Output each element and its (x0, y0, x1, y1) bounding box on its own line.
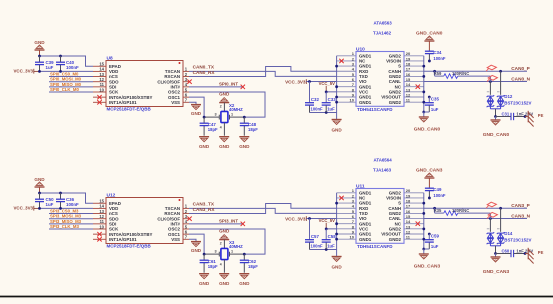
svg-text:PE: PE (538, 113, 544, 118)
svg-text:GND: GND (34, 40, 45, 45)
svg-text:10: 10 (99, 87, 104, 92)
svg-text:1uF: 1uF (46, 202, 54, 207)
ground GND_CAN3 (under TVS) (483, 254, 510, 275)
svg-text:U8: U8 (107, 55, 113, 61)
svg-text:C33: C33 (328, 97, 337, 102)
IC U11 TDH541SCANFD isolated CAN transceiver (337, 183, 424, 249)
ground GND (transceiver) (331, 120, 342, 133)
svg-text:VCC_5V: VCC_5V (319, 81, 335, 86)
svg-text:INT1A/GP101: INT1A/GP101 (109, 237, 137, 242)
capacitor C36 100nF (56, 193, 79, 208)
svg-text:VCC_3V3: VCC_3V3 (13, 206, 33, 211)
capacitor C48 18pF (240, 117, 258, 136)
no-connect X transceiver pin 14 (416, 222, 420, 226)
capacitor C31 1nF 2KV (496, 111, 534, 120)
net label wire SPI3_CS0_M3 (49, 208, 93, 213)
svg-text:U11: U11 (356, 183, 365, 189)
svg-text:D12: D12 (504, 94, 513, 99)
svg-text:3: 3 (215, 113, 217, 117)
CAN channel 0 circuit (13, 21, 543, 150)
svg-text:2: 2 (220, 104, 222, 108)
ground GND (under crystal) (219, 274, 230, 286)
capacitor C57 100nF (305, 219, 323, 250)
svg-text:120R/NC: 120R/NC (452, 71, 469, 76)
svg-text:100nF: 100nF (66, 202, 79, 207)
svg-text:GND2: GND2 (389, 100, 402, 105)
svg-text:CAN3_P: CAN3_P (511, 203, 530, 208)
ground GND (top-left of U8) (34, 40, 45, 56)
capacitor C49 100nF (425, 187, 446, 199)
ground GND_CAN0 (under TVS) (483, 117, 510, 138)
capacitor C47 18pF (200, 117, 218, 136)
svg-text:U12: U12 (107, 192, 116, 198)
svg-text:C60: C60 (502, 248, 510, 253)
svg-text:GND1: GND1 (359, 100, 372, 105)
power port VCC_3V3 (13, 206, 39, 211)
svg-text:SPI3_INT: SPI3_INT (219, 219, 238, 224)
svg-text:GND: GND (34, 177, 45, 182)
ground GND (under C47) (199, 274, 210, 286)
svg-text:1uF: 1uF (431, 244, 439, 249)
svg-text:TDH541SCANFD: TDH541SCANFD (357, 244, 393, 249)
ground GND (above crystal X2) (219, 91, 230, 111)
svg-text:INT1A/GP101: INT1A/GP101 (109, 100, 137, 105)
svg-text:C49: C49 (433, 187, 442, 192)
svg-text:C59: C59 (431, 234, 440, 239)
svg-text:MCP2518FDT-E/QBB: MCP2518FDT-E/QBB (107, 107, 152, 112)
svg-text:GND: GND (219, 144, 230, 149)
net label wire SPI0_INT (189, 82, 245, 89)
resistor R59 120R/NC (434, 71, 491, 82)
text ATA6563 (374, 21, 393, 26)
IC U12 MCP2518FDT-E/QBB CAN controller (93, 192, 189, 248)
svg-text:CAN0_N: CAN0_N (511, 76, 530, 81)
capacitor C61 18pF (200, 254, 218, 273)
svg-text:MCP2518FDT-E/QBB: MCP2518FDT-E/QBB (107, 244, 152, 249)
svg-text:10: 10 (350, 235, 355, 240)
text TJA1462 (373, 31, 392, 36)
svg-text:1uF: 1uF (431, 107, 439, 112)
svg-text:C57: C57 (311, 234, 320, 239)
svg-text:GND1: GND1 (359, 237, 372, 242)
ground GND (under C48) (239, 137, 250, 149)
svg-text:10: 10 (99, 224, 104, 229)
net label wire CAN3_RX (189, 204, 337, 214)
svg-text:GND: GND (199, 281, 210, 286)
svg-text:C32: C32 (311, 97, 320, 102)
IC U8 MCP2518FDT-E/QBB CAN controller (93, 55, 189, 111)
wire GND1 bus (310, 56, 339, 120)
ground GND_CAN3 (above C34) (416, 167, 443, 187)
wire GND rail to EPAD (38, 55, 93, 67)
text TJA1463 (373, 168, 392, 173)
svg-text:18pF: 18pF (248, 264, 258, 269)
capacitor C32 100nF (305, 82, 323, 113)
svg-text:1uF: 1uF (327, 244, 335, 249)
no-connect X CLKO/SOF pin 3 (187, 217, 191, 221)
svg-text:C31: C31 (502, 111, 510, 116)
svg-text:D14: D14 (504, 231, 513, 236)
power port VCC_5V (319, 218, 337, 230)
svg-text:SPI0_CLK_M0: SPI0_CLK_M0 (50, 87, 80, 92)
svg-text:GND2: GND2 (389, 237, 402, 242)
svg-text:40MHZ: 40MHZ (229, 107, 243, 112)
net label wire CAN3_TX (189, 202, 337, 214)
svg-text:GND: GND (219, 91, 230, 96)
no-connect X pin 9 (97, 232, 101, 236)
net label wire CAN0_P (CANH) (424, 66, 530, 73)
svg-text:GND: GND (331, 127, 342, 132)
svg-text:BST23C152V: BST23C152V (504, 101, 531, 106)
svg-text:GND_CAN3: GND_CAN3 (483, 269, 510, 275)
svg-text:10: 10 (350, 98, 355, 103)
svg-text:CAN0_P: CAN0_P (511, 66, 530, 71)
capacitor C50 1uF (35, 193, 54, 208)
svg-text:GND: GND (219, 228, 230, 233)
svg-text:100nF: 100nF (433, 193, 446, 198)
svg-text:SPI0_INT: SPI0_INT (219, 82, 238, 87)
power port VCC_5V (319, 81, 337, 93)
svg-text:SPI3_CLK_M3: SPI3_CLK_M3 (50, 224, 80, 229)
ground GND (under C48) (239, 274, 250, 286)
wire VCC_3V3 to VDD (38, 207, 93, 210)
svg-text:GND_CAN0: GND_CAN0 (483, 132, 510, 138)
svg-text:R35: R35 (434, 208, 442, 213)
svg-text:BST23C152V: BST23C152V (504, 238, 531, 243)
wire OSC1 to crystal (189, 234, 204, 254)
svg-text:VCC_3V3: VCC_3V3 (285, 216, 306, 221)
svg-text:3: 3 (215, 250, 217, 254)
svg-text:ATA6564: ATA6564 (374, 158, 393, 163)
svg-text:GND: GND (239, 144, 250, 149)
ground GND_CAN0 (bus) (414, 117, 441, 133)
wire OSC1 to crystal (189, 97, 204, 117)
wire OSC2 to crystal (189, 92, 265, 117)
net label wire CAN0_TX (189, 65, 337, 77)
svg-text:100nF: 100nF (433, 56, 446, 61)
test point CAN3_P (486, 202, 496, 208)
ground GND_CAN3 (bus) (414, 254, 441, 270)
svg-text:VCC_3V3: VCC_3V3 (13, 69, 33, 74)
net label wire SPI3_INT (189, 219, 245, 226)
no-connect X pin 8 (97, 237, 101, 241)
capacitor C33 1uF (322, 92, 337, 113)
ground GND_CAN0 (above C34) (416, 30, 443, 50)
svg-text:1uF: 1uF (327, 107, 335, 112)
svg-text:GND: GND (239, 281, 250, 286)
net label wire CAN3_P (CANH) (424, 203, 530, 210)
power port VCC_3V3 (VIO) (285, 216, 337, 221)
svg-text:18pF: 18pF (208, 127, 218, 132)
svg-text:GND_CAN0: GND_CAN0 (414, 127, 441, 133)
net label wire CAN0_N (CANL) (424, 76, 531, 83)
svg-text:TDH541SCANFD: TDH541SCANFD (357, 107, 393, 112)
CAN channel 3 circuit (13, 158, 543, 287)
sheet border line (0, 296, 553, 298)
svg-text:TJA1462: TJA1462 (373, 31, 392, 36)
ground GND (above crystal X3) (219, 228, 230, 248)
svg-text:GND: GND (219, 281, 230, 286)
capacitor C58 1uF (322, 229, 337, 250)
capacitor C59 1uF (424, 233, 440, 250)
no-connect X transceiver pin 2 (339, 59, 343, 63)
svg-text:GND: GND (331, 264, 342, 269)
capacitor C35 1uF (424, 96, 440, 113)
test point CAN0_P (486, 65, 496, 71)
svg-text:TJA1463: TJA1463 (373, 168, 392, 173)
ground GND (under crystal) (219, 137, 230, 149)
svg-text:4: 4 (220, 262, 222, 266)
svg-text:1uF: 1uF (46, 65, 54, 70)
test point CAN0_N (487, 75, 497, 81)
ground GND (transceiver) (331, 257, 342, 270)
wire GND1 bus (310, 193, 339, 257)
net label wire SPI3_MOSI_M3 (49, 214, 93, 219)
svg-text:C58: C58 (328, 234, 337, 239)
svg-text:100nF: 100nF (311, 107, 324, 112)
svg-text:100nF: 100nF (66, 65, 79, 70)
svg-text:C35: C35 (431, 97, 440, 102)
svg-text:CAN3_N: CAN3_N (511, 213, 530, 218)
net label wire SPI0_CS0_M0 (49, 71, 93, 76)
wire GND2 bus (422, 193, 425, 254)
text ATA6564 (374, 158, 393, 163)
capacitor C62 18pF (240, 254, 258, 273)
svg-text:VSS: VSS (171, 237, 180, 242)
svg-text:2: 2 (220, 241, 222, 245)
svg-text:120R/NC: 120R/NC (452, 208, 469, 213)
wire VCC_3V3 to VDD (38, 70, 93, 73)
chassis ground PE (525, 111, 544, 127)
svg-text:18pF: 18pF (208, 264, 218, 269)
svg-text:CAN0_RX: CAN0_RX (193, 70, 216, 75)
net label wire SPI3_MISO_M3 (49, 219, 93, 224)
net label wire SPI3_CLK_M3 (49, 224, 93, 229)
wire GND rail to EPAD (38, 192, 93, 204)
svg-text:4: 4 (220, 125, 222, 129)
svg-text:GND: GND (191, 111, 202, 116)
no-connect X pin 9 (97, 95, 101, 99)
no-connect X pin 8 (97, 100, 101, 104)
crystal X3 40MHZ (203, 240, 246, 273)
svg-text:VSS: VSS (171, 100, 180, 105)
IC U10 TDH541SCANFD isolated CAN transceiver (337, 46, 424, 112)
TVS diode D12 BST23C152V (487, 71, 532, 118)
svg-text:40MHZ: 40MHZ (229, 244, 243, 249)
wire OSC2 to crystal (189, 229, 265, 254)
svg-text:1: 1 (231, 113, 233, 117)
chassis ground PE (525, 248, 544, 264)
net label wire CAN3_N (CANL) (424, 213, 531, 220)
no-connect X CLKO/SOF pin 3 (187, 80, 191, 84)
svg-text:CAN3_RX: CAN3_RX (193, 207, 216, 212)
svg-text:100nF: 100nF (311, 244, 324, 249)
power port VCC_3V3 (13, 69, 39, 74)
capacitor C40 100nF (56, 56, 79, 71)
svg-text:U10: U10 (356, 46, 365, 52)
ground GND (VSS) (189, 239, 202, 253)
svg-text:R59: R59 (434, 71, 442, 76)
svg-text:VCC_3V3: VCC_3V3 (285, 79, 306, 84)
svg-text:VCC_5V: VCC_5V (319, 218, 335, 223)
resistor R35 120R/NC (434, 208, 491, 219)
svg-text:PE: PE (538, 250, 544, 255)
svg-text:GND: GND (191, 248, 202, 253)
ground GND (under C47) (199, 137, 210, 149)
ground GND (VSS) (189, 102, 202, 116)
svg-text:18pF: 18pF (248, 127, 258, 132)
svg-text:ATA6563: ATA6563 (374, 21, 393, 26)
net label wire SPI0_MOSI_M0 (49, 77, 93, 82)
net label wire CAN0_RX (189, 67, 337, 77)
ground GND (top-left of U12) (34, 177, 45, 193)
no-connect X transceiver pin 14 (416, 85, 420, 89)
power port VCC_3V3 (VIO) (285, 79, 337, 84)
svg-text:C34: C34 (433, 50, 442, 55)
capacitor C34 100nF (425, 50, 446, 62)
svg-text:GND_CAN3: GND_CAN3 (414, 264, 441, 270)
capacitor C60 1nF 2KV (496, 248, 534, 257)
capacitor C39 1uF (35, 56, 54, 71)
net label wire SPI0_MISO_M0 (49, 82, 93, 87)
svg-text:GND: GND (199, 144, 210, 149)
no-connect X transceiver pin 2 (339, 196, 343, 200)
test point CAN3_N (487, 212, 497, 218)
TVS diode D14 BST23C152V (487, 208, 532, 255)
net label wire SPI0_CLK_M0 (49, 87, 93, 92)
svg-text:1: 1 (231, 250, 233, 254)
wire GND2 bus (422, 56, 425, 117)
crystal X2 40MHZ (203, 103, 246, 136)
